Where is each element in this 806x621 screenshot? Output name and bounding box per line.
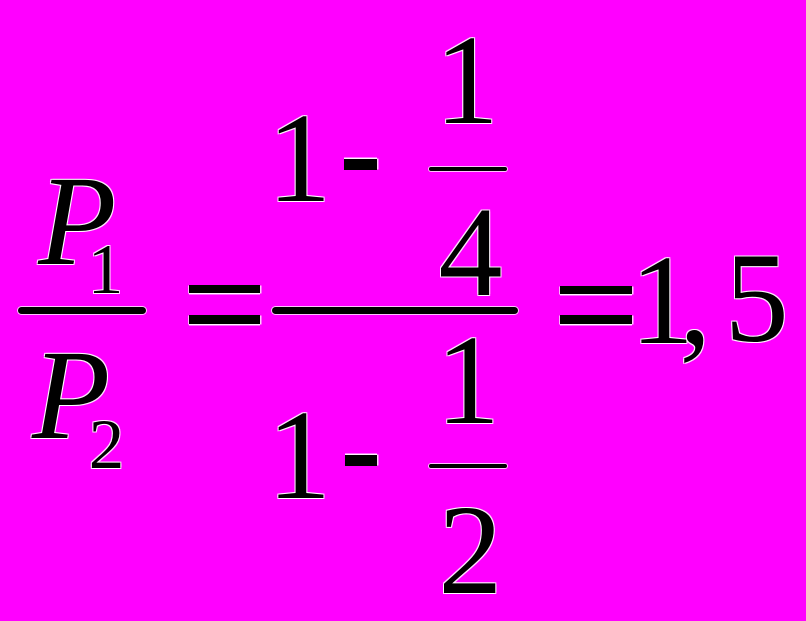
numerator minus sign: [344, 159, 377, 170]
denominator digit 1: [267, 391, 331, 519]
inner fraction 1/2 denominator 2: [438, 486, 502, 614]
equals sign 2 bottom bar: [560, 315, 632, 324]
result digit 1: [630, 236, 694, 364]
denominator minus sign: [345, 455, 378, 466]
equals sign 2 top bar: [560, 286, 632, 294]
equals sign 1 top bar: [189, 285, 261, 293]
numerator P of P1: [38, 157, 116, 285]
inner fraction 1/4 denominator 4: [439, 188, 503, 316]
main fraction bar: [272, 307, 519, 314]
subscript 1 of P1: [88, 235, 124, 306]
denominator P of P2: [32, 331, 110, 459]
result digit 5: [725, 234, 789, 362]
inner fraction 1/2 numerator 1: [436, 316, 500, 444]
result comma: [679, 236, 711, 364]
fraction bar of P1/P2: [18, 307, 146, 314]
inner fraction 1/4 numerator 1: [435, 16, 499, 144]
numerator digit 1: [267, 94, 331, 222]
inner fraction 1/2 bar: [429, 464, 507, 468]
equals sign 1 bottom bar: [189, 315, 261, 324]
subscript 2 of P2: [89, 410, 125, 481]
inner fraction 1/4 bar: [429, 167, 507, 171]
